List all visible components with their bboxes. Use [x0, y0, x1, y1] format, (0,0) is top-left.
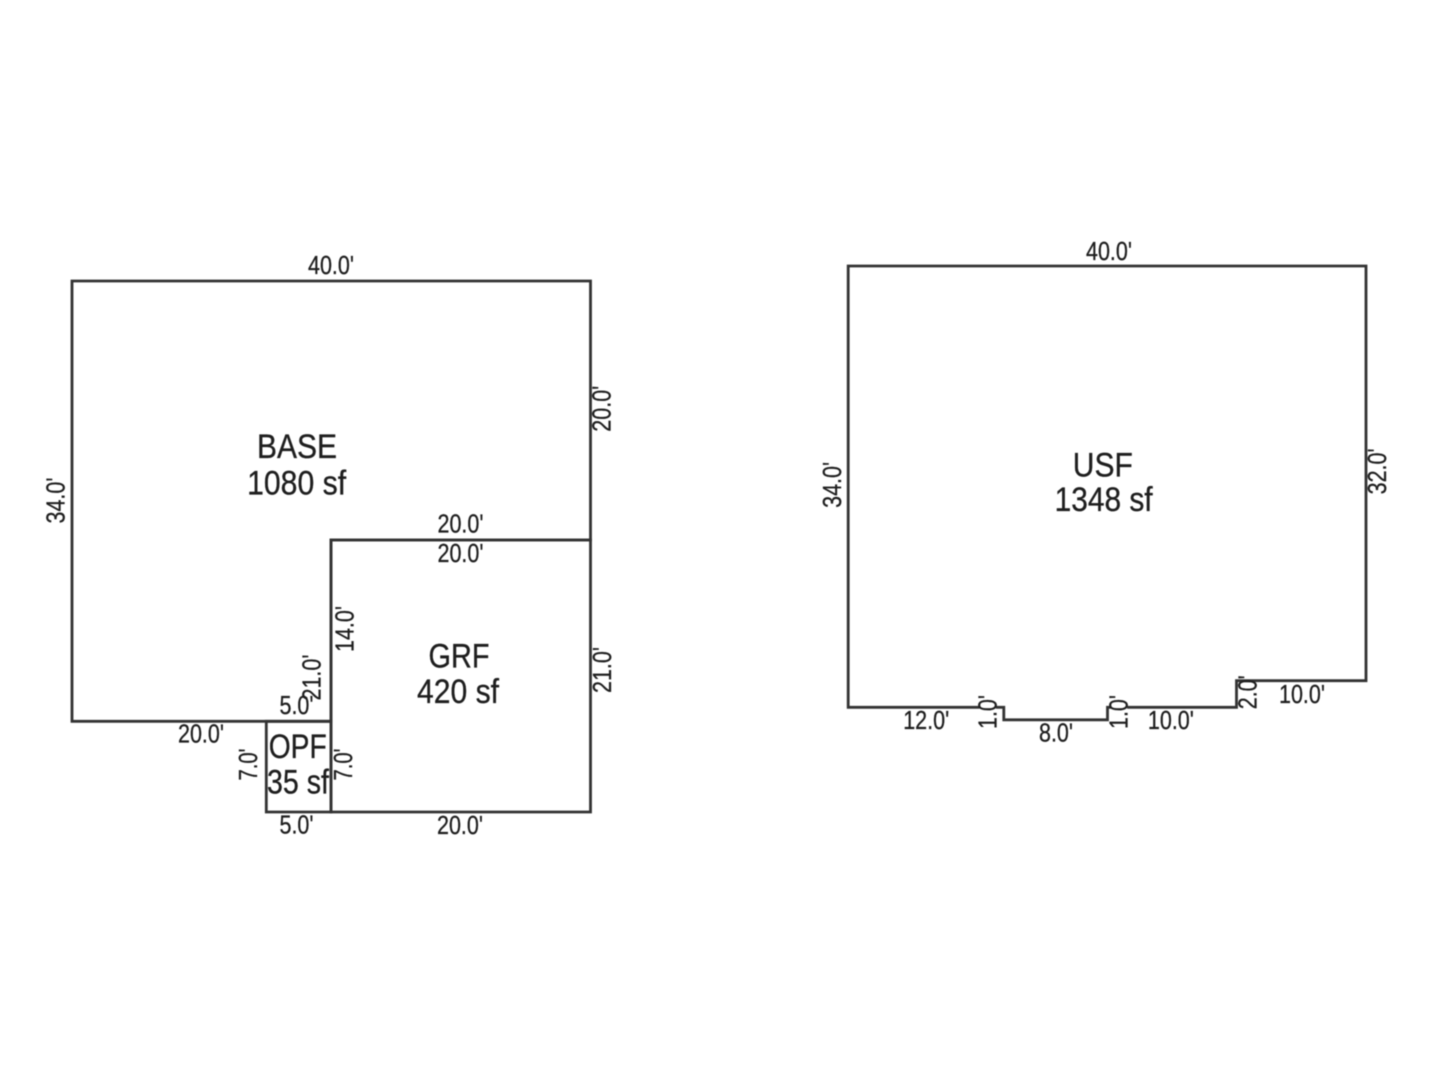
- svg-text:40.0': 40.0': [1086, 236, 1132, 266]
- svg-text:5.0': 5.0': [280, 810, 314, 840]
- svg-text:34.0': 34.0': [817, 462, 847, 508]
- svg-text:35 sf: 35 sf: [267, 763, 329, 801]
- dimension 21.0' (BASE inner vertical): [297, 655, 327, 701]
- dimension 7.0' (OPF left): [233, 749, 263, 781]
- svg-text:20.0': 20.0': [178, 719, 224, 749]
- svg-text:1348 sf: 1348 sf: [1055, 481, 1153, 519]
- svg-text:7.0': 7.0': [233, 749, 263, 781]
- dimension 7.0' (OPF right / GRF left lower): [328, 749, 358, 781]
- dimension 1.0' (first jog): [972, 695, 1002, 729]
- dimension 2.0' (USF bottom step): [1233, 675, 1263, 709]
- svg-text:1.0': 1.0': [1104, 695, 1134, 729]
- svg-text:20.0': 20.0': [437, 810, 483, 840]
- dimension 32.0' (USF right): [1362, 448, 1392, 494]
- svg-text:21.0': 21.0': [587, 647, 617, 693]
- svg-text:34.0': 34.0': [40, 478, 70, 524]
- svg-text:USF: USF: [1073, 446, 1133, 484]
- dimension 14.0' (GRF left upper): [330, 606, 360, 652]
- USF floor outline: [848, 266, 1366, 720]
- svg-text:32.0': 32.0': [1362, 448, 1392, 494]
- svg-text:20.0': 20.0': [587, 386, 617, 432]
- svg-text:2.0': 2.0': [1233, 675, 1263, 709]
- svg-text:20.0': 20.0': [438, 538, 484, 568]
- svg-text:7.0': 7.0': [328, 749, 358, 781]
- svg-text:OPF: OPF: [269, 728, 327, 766]
- dimension 21.0' (GRF right): [587, 647, 617, 693]
- svg-text:40.0': 40.0': [308, 250, 354, 280]
- BASE floor outline: [72, 281, 591, 721]
- dimension 34.0' (BASE left): [40, 478, 70, 524]
- dimension 34.0' (USF left): [817, 462, 847, 508]
- svg-text:1.0': 1.0': [972, 695, 1002, 729]
- svg-text:GRF: GRF: [429, 637, 490, 675]
- svg-text:10.0': 10.0': [1279, 679, 1325, 709]
- OPF floor outline: [266, 721, 331, 812]
- svg-text:10.0': 10.0': [1148, 705, 1194, 735]
- svg-text:1080 sf: 1080 sf: [247, 465, 346, 503]
- svg-text:14.0': 14.0': [330, 606, 360, 652]
- dimension 1.0' (second jog): [1104, 695, 1134, 729]
- svg-text:5.0': 5.0': [280, 690, 314, 720]
- svg-text:8.0': 8.0': [1039, 718, 1073, 748]
- GRF floor outline: [331, 540, 591, 812]
- svg-text:420 sf: 420 sf: [417, 673, 499, 711]
- dimension 20.0' (BASE right): [587, 386, 617, 432]
- svg-text:20.0': 20.0': [438, 509, 484, 539]
- svg-text:BASE: BASE: [257, 428, 337, 466]
- svg-text:12.0': 12.0': [903, 705, 949, 735]
